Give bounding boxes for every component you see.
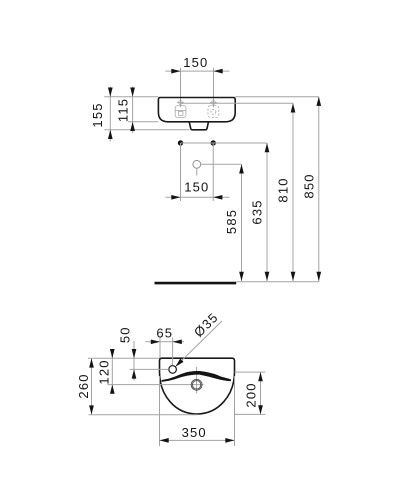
dimension 115	[132, 87, 134, 134]
rim extension line left	[104, 96, 158, 98]
drain centerline horizontal	[108, 384, 204, 386]
supply circle line to 585	[201, 163, 242, 165]
svg-text:Ø35: Ø35	[191, 309, 221, 339]
svg-text:850: 850	[302, 173, 317, 198]
plan outline	[160, 358, 235, 414]
350 extension line right	[234, 376, 236, 446]
svg-text:350: 350	[182, 425, 207, 440]
svg-text:200: 200	[244, 382, 259, 407]
wall fixing dot right	[211, 140, 216, 145]
dimension 850	[318, 97, 320, 281]
wall fixing dot left	[178, 140, 183, 145]
dimension 150 top arrows	[171, 69, 180, 74]
extension line left fixing hole centerline	[180, 68, 182, 108]
svg-text:150: 150	[184, 180, 209, 195]
right fixing hole symbol	[208, 101, 219, 118]
left dot extension down	[180, 143, 182, 201]
wave level extension right	[235, 371, 266, 373]
svg-text:155: 155	[90, 102, 105, 127]
left fixing hole symbol	[175, 101, 186, 118]
dimension 810	[292, 103, 294, 281]
drain inner circle	[192, 381, 200, 389]
basin drain tab	[189, 122, 208, 130]
svg-text:810: 810	[276, 177, 291, 202]
floor thick line	[155, 282, 237, 285]
basin bottom extension line	[128, 121, 158, 123]
tap vertical centerline	[172, 338, 174, 366]
supply circle	[193, 160, 201, 168]
drain outer circle	[191, 379, 202, 390]
350 extension line left	[159, 376, 161, 446]
dimension 260	[91, 358, 93, 414]
svg-text:50: 50	[118, 326, 133, 343]
svg-text:150: 150	[183, 55, 208, 70]
dimension 155	[109, 87, 111, 142]
extension line right fixing hole centerline	[213, 68, 215, 108]
basin front outline	[158, 98, 235, 122]
plan top extension line left	[88, 357, 160, 359]
dimension 120	[111, 350, 113, 393]
dimension 585	[241, 164, 243, 281]
dots level line to 635	[181, 142, 268, 144]
svg-text:115: 115	[116, 98, 131, 122]
dimension 200	[260, 372, 262, 414]
svg-text:635: 635	[250, 199, 265, 224]
plan bottom extension right	[235, 413, 266, 415]
plan bottom extension left	[89, 414, 197, 416]
dimension 150 middle line	[166, 196, 230, 198]
tap hole circle	[169, 366, 177, 374]
tab bottom extension line	[104, 129, 189, 131]
svg-text:585: 585	[224, 209, 239, 234]
rim extension line right to 850	[235, 96, 319, 98]
tap horizontal centerline	[130, 368, 169, 370]
supply circle stub below	[196, 168, 198, 175]
right dot extension down	[212, 143, 214, 201]
svg-text:65: 65	[156, 326, 173, 341]
fixing holes level line to 810	[181, 102, 294, 104]
basin wave edge	[162, 371, 231, 381]
dimension 635	[266, 143, 268, 281]
floor thin line	[236, 281, 320, 283]
dimension 50	[133, 341, 135, 381]
diameter 35 leader	[176, 321, 222, 366]
dimension 65	[145, 341, 184, 343]
svg-text:260: 260	[76, 373, 91, 398]
dimension 150 top line	[166, 70, 230, 72]
svg-text:120: 120	[97, 359, 112, 384]
drain centerline vertical	[196, 367, 198, 393]
dimension 350	[160, 439, 235, 441]
